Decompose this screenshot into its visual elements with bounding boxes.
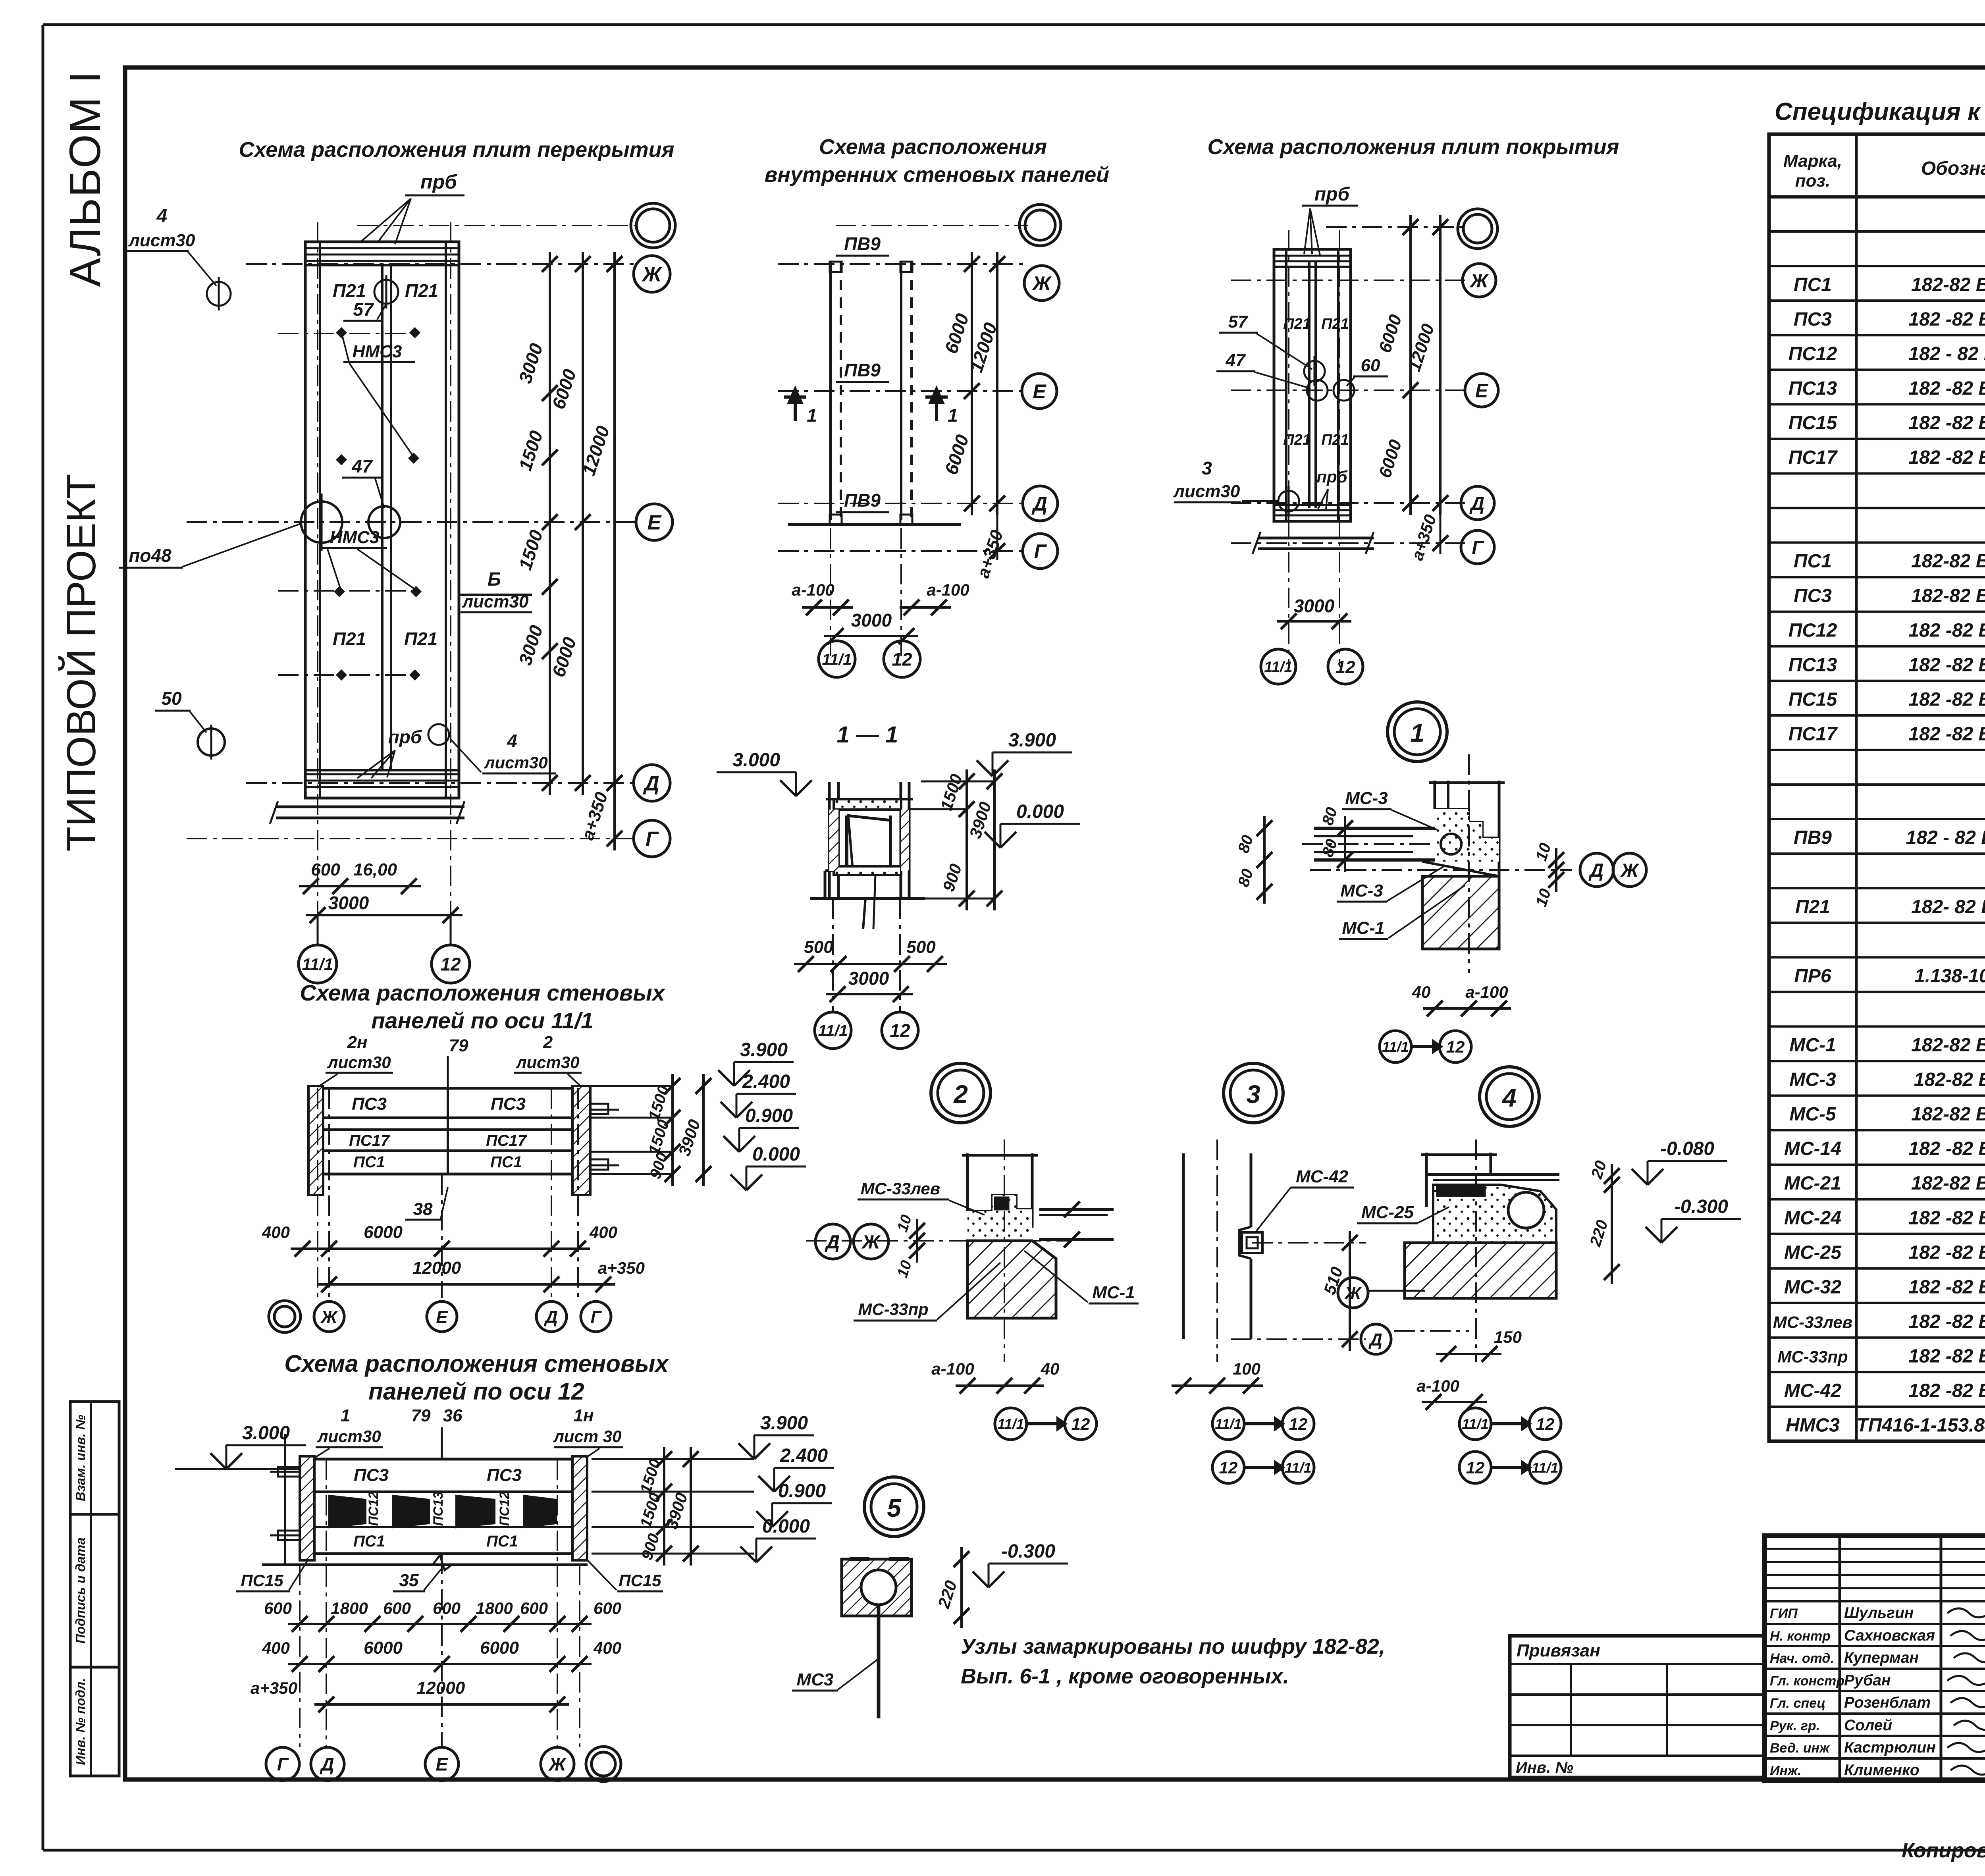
svg-text:Вып. 6-1 , кроме оговоренны: Вып. 6-1 , кроме оговоренных. bbox=[961, 1664, 1289, 1688]
svg-text:Б: Б bbox=[488, 569, 501, 590]
spec table row 22: Перемычки bbox=[1769, 922, 1985, 924]
svg-text:Ж: Ж bbox=[641, 263, 663, 286]
scheme 3 lintel bands bbox=[1275, 255, 1349, 257]
svg-text:МС-33пр: МС-33пр bbox=[858, 1300, 928, 1319]
svg-text:0.000: 0.000 bbox=[1016, 801, 1064, 822]
spec table row 35: МС-42 bbox=[1769, 1371, 1985, 1373]
svg-text:лист30: лист30 bbox=[327, 1053, 391, 1072]
svg-text:Схема расположения: Схема расположения bbox=[819, 135, 1047, 159]
title block outer bbox=[1765, 1536, 1985, 1781]
spec table outer bbox=[1769, 134, 1985, 1441]
svg-text:11/1: 11/1 bbox=[1532, 1460, 1558, 1476]
svg-text:11/1: 11/1 bbox=[822, 651, 852, 668]
svg-text:лист 30: лист 30 bbox=[553, 1427, 622, 1446]
svg-text:1: 1 bbox=[948, 405, 958, 426]
svg-text:182 - 82 Вып. 3-1: 182 - 82 Вып. 3-1 bbox=[1906, 827, 1985, 848]
svg-text:Д: Д bbox=[319, 1754, 334, 1775]
scheme 1 bottom dimensions bbox=[299, 885, 421, 887]
detail 4 vertical axis bbox=[1475, 1139, 1477, 1362]
svg-text:2н: 2н bbox=[347, 1033, 367, 1052]
svg-text:Ж: Ж bbox=[320, 1307, 338, 1327]
svg-text:12: 12 bbox=[1336, 657, 1355, 677]
svg-text:182 -82 Вып. 1-3: 182 -82 Вып. 1-3 bbox=[1908, 413, 1985, 434]
svg-text:11/1: 11/1 bbox=[1215, 1416, 1241, 1432]
spec table row 30: МС-24 bbox=[1769, 1198, 1985, 1201]
svg-text:0.900: 0.900 bbox=[778, 1481, 826, 1502]
detail 1 bottom dims bbox=[1423, 1007, 1511, 1010]
spec table row 15: П6.15.3,5 bbox=[1769, 680, 1985, 682]
title block signatures bbox=[1947, 1606, 1985, 1618]
svg-text:182-82 Вып. 7-1: 182-82 Вып. 7-1 bbox=[1911, 1035, 1985, 1056]
detail 2 wall above bbox=[966, 1153, 969, 1211]
svg-text:Кастрюлин: Кастрюлин bbox=[1844, 1739, 1936, 1756]
svg-text:600: 600 bbox=[594, 1599, 621, 1618]
svg-text:182 -82 Вып. 1-1: 182 -82 Вып. 1-1 bbox=[1908, 689, 1985, 710]
svg-text:6000: 6000 bbox=[480, 1638, 519, 1658]
svg-text:Копировал: Копировал bbox=[1902, 1839, 1985, 1862]
svg-text:182 -82 Вып. 1-3: 182 -82 Вып. 1-3 bbox=[1908, 309, 1985, 330]
svg-text:лист30: лист30 bbox=[515, 1053, 579, 1072]
svg-text:ПС3: ПС3 bbox=[487, 1465, 522, 1485]
spec table row 8: П60.15.3 bbox=[1769, 438, 1985, 440]
scheme 3 bottom dims bbox=[1277, 620, 1351, 623]
svg-text:ГИП: ГИП bbox=[1770, 1606, 1798, 1621]
svg-text:1: 1 bbox=[341, 1406, 350, 1425]
svg-text:ПС12: ПС12 bbox=[366, 1491, 381, 1526]
detail 4 axis connection lines bbox=[1369, 1290, 1425, 1292]
svg-text:Гл. констр: Гл. констр bbox=[1770, 1674, 1844, 1689]
scheme 1 lintel band bottom bbox=[306, 773, 458, 775]
svg-text:79: 79 bbox=[449, 1036, 468, 1055]
section 1-1 level marks bbox=[780, 780, 796, 796]
spec table row 16: П60.15.3,5 bbox=[1769, 714, 1985, 717]
svg-text:11/1: 11/1 bbox=[1382, 1039, 1409, 1055]
svg-text:400: 400 bbox=[262, 1639, 290, 1657]
svg-text:ПС15: ПС15 bbox=[241, 1571, 283, 1590]
detail 2 ref circles bbox=[995, 1408, 1027, 1440]
spec table row 17: Для t=-20°; t=-30°; t=40° bbox=[1769, 749, 1985, 751]
svg-text:182 -82 Вып. 1-1: 182 -82 Вып. 1-1 bbox=[1908, 620, 1985, 641]
svg-text:12: 12 bbox=[440, 954, 461, 975]
svg-text:Н. контр: Н. контр bbox=[1770, 1629, 1831, 1644]
detail 2 vertical axis bbox=[1004, 1139, 1005, 1362]
svg-text:2.400: 2.400 bbox=[742, 1071, 790, 1092]
svg-text:1н: 1н bbox=[573, 1406, 594, 1425]
svg-text:2.400: 2.400 bbox=[780, 1445, 828, 1466]
svg-text:Ж: Ж bbox=[1620, 860, 1640, 881]
spec table header row bbox=[1769, 195, 1985, 199]
svg-text:1800: 1800 bbox=[331, 1599, 368, 1618]
detail 4 bubble bbox=[1480, 1067, 1539, 1126]
svg-text:Инв. №: Инв. № bbox=[1516, 1759, 1573, 1776]
spec table row 33: МС-33 лев bbox=[1769, 1302, 1985, 1304]
detail 5 anchor line bbox=[877, 1605, 881, 1718]
svg-text:3: 3 bbox=[1246, 1080, 1260, 1109]
svg-text:3.900: 3.900 bbox=[740, 1039, 788, 1060]
svg-text:П21: П21 bbox=[405, 280, 438, 301]
svg-text:ПС13: ПС13 bbox=[1788, 378, 1837, 399]
svg-text:182 -82 Вып. 7-1: 182 -82 Вып. 7-1 bbox=[1908, 1346, 1985, 1367]
svg-text:12: 12 bbox=[1072, 1415, 1090, 1433]
svg-text:ПС1: ПС1 bbox=[1794, 274, 1832, 295]
svg-text:ПС12: ПС12 bbox=[1788, 620, 1837, 641]
svg-text:ПС1: ПС1 bbox=[353, 1153, 385, 1171]
svg-text:ПС3: ПС3 bbox=[491, 1094, 526, 1114]
svg-text:600: 600 bbox=[433, 1599, 461, 1618]
svg-text:ТИПОВОЙ ПРОЕКТ: ТИПОВОЙ ПРОЕКТ bbox=[58, 474, 104, 851]
svg-text:182-82 Вып. 1-3: 182-82 Вып. 1-3 bbox=[1911, 274, 1985, 295]
svg-text:182 -82 Вып. 1-3: 182 -82 Вып. 1-3 bbox=[1908, 447, 1985, 468]
svg-text:12: 12 bbox=[890, 1020, 910, 1041]
scheme 1 lintel band top bbox=[306, 247, 458, 249]
detail 2 bottom dims bbox=[956, 1384, 1044, 1387]
svg-text:1.138-10 Вып.1: 1.138-10 Вып.1 bbox=[1914, 966, 1985, 987]
svg-text:11/1: 11/1 bbox=[1264, 659, 1292, 676]
spec table row 26: МС-3 bbox=[1769, 1060, 1985, 1062]
scheme 12 left pier bbox=[300, 1456, 314, 1560]
detail 1 slab from left bbox=[1314, 827, 1435, 830]
detail 3 MS-42 square bbox=[1242, 1232, 1262, 1253]
svg-text:МС-3: МС-3 bbox=[1345, 789, 1388, 808]
svg-text:12000: 12000 bbox=[416, 1678, 465, 1698]
svg-text:НМС3: НМС3 bbox=[330, 528, 380, 547]
svg-text:Д: Д bbox=[1469, 493, 1485, 514]
spec table row 18: Внутренние стеновые панели bbox=[1769, 783, 1985, 786]
svg-text:47: 47 bbox=[351, 456, 373, 476]
svg-text:Спецификация к схемам распо: Спецификация к схемам расположения на ли… bbox=[1775, 98, 1985, 125]
scheme 2 dimension lines bbox=[971, 252, 973, 515]
svg-text:182-82 Вып. 1-1: 182-82 Вып. 1-1 bbox=[1911, 585, 1985, 606]
title block left part lines bbox=[1839, 1536, 1841, 1781]
svg-text:40: 40 bbox=[1041, 1359, 1060, 1378]
scheme 11-1 right pier bbox=[572, 1086, 590, 1195]
svg-text:50: 50 bbox=[161, 688, 182, 709]
svg-text:2: 2 bbox=[543, 1033, 553, 1052]
svg-text:150: 150 bbox=[1494, 1328, 1522, 1346]
svg-text:60: 60 bbox=[1361, 356, 1380, 375]
svg-text:Сахновская: Сахновская bbox=[1844, 1627, 1935, 1644]
svg-text:12: 12 bbox=[892, 649, 912, 670]
svg-text:Д: Д bbox=[643, 772, 659, 795]
svg-text:Инв. № подл.: Инв. № подл. bbox=[73, 1678, 88, 1765]
section 1-1 walls bbox=[828, 782, 831, 898]
spec table row 9: Для t=-40° bbox=[1769, 472, 1985, 474]
scheme 12 footing lines bbox=[262, 1564, 588, 1566]
svg-text:40: 40 bbox=[1412, 983, 1431, 1001]
svg-text:Клименко: Клименко bbox=[1844, 1762, 1919, 1779]
scheme 1 right dimension lines bbox=[549, 252, 551, 795]
svg-text:МС-33пр: МС-33пр bbox=[1777, 1348, 1848, 1366]
svg-text:182-82 Вып. 1-1: 182-82 Вып. 1-1 bbox=[1911, 551, 1985, 572]
svg-text:182- 82 Вып.4-1: 182- 82 Вып.4-1 bbox=[1911, 897, 1985, 918]
svg-text:Г: Г bbox=[590, 1307, 602, 1327]
detail 3 dim 510 bbox=[1252, 1242, 1366, 1244]
svg-text:лист30: лист30 bbox=[128, 231, 195, 250]
svg-text:внутренних стеновых панелей: внутренних стеновых панелей bbox=[765, 163, 1110, 187]
svg-text:Рук. гр.: Рук. гр. bbox=[1770, 1718, 1820, 1733]
detail 5 dims bbox=[960, 1547, 963, 1628]
svg-text:Узлы замаркированы по шифру: Узлы замаркированы по шифру 182-82, bbox=[961, 1635, 1385, 1658]
detail 1 stepped MS-3 element bbox=[1435, 809, 1499, 838]
detail 1 bubble bbox=[1388, 702, 1447, 762]
scheme 2 section mark 1-1 right bbox=[935, 391, 938, 421]
scheme 12 dims below bbox=[288, 1623, 592, 1625]
spec table row 25: МС-1 bbox=[1769, 1025, 1985, 1028]
svg-text:-0.300: -0.300 bbox=[1674, 1196, 1728, 1217]
section 1-1 hatch left wall bbox=[829, 810, 838, 871]
svg-text:182-82 Вып. 7-1: 182-82 Вып. 7-1 bbox=[1911, 1173, 1985, 1194]
spec table row 11: П60.9.3,5 bbox=[1769, 542, 1985, 544]
svg-text:Е: Е bbox=[1475, 380, 1489, 401]
svg-text:а-100: а-100 bbox=[792, 580, 834, 599]
svg-text:П21: П21 bbox=[1321, 432, 1349, 448]
scheme 12 right pier bbox=[572, 1456, 587, 1560]
svg-text:3.900: 3.900 bbox=[1008, 730, 1056, 751]
svg-text:МС-1: МС-1 bbox=[1789, 1035, 1836, 1056]
svg-text:600: 600 bbox=[520, 1599, 548, 1618]
svg-text:Обозначение: Обозначение bbox=[1921, 158, 1985, 179]
svg-text:ПС1: ПС1 bbox=[486, 1533, 518, 1550]
section 1-1 right dims bbox=[966, 769, 968, 821]
scheme 3 axis verticals bbox=[1288, 230, 1289, 667]
svg-text:11/1: 11/1 bbox=[818, 1022, 848, 1039]
scheme 1 plan outline bbox=[305, 242, 459, 798]
svg-text:1 — 1: 1 — 1 bbox=[837, 722, 898, 748]
svg-text:79: 79 bbox=[411, 1406, 431, 1425]
svg-text:а+350: а+350 bbox=[251, 1679, 297, 1697]
svg-text:0.000: 0.000 bbox=[762, 1516, 810, 1537]
scheme 12 axis verticals bbox=[299, 1565, 301, 1747]
svg-text:182 -82 Вып. 7-1: 182 -82 Вып. 7-1 bbox=[1908, 1138, 1985, 1159]
scheme 2 bottom dims bbox=[830, 528, 831, 659]
svg-text:400: 400 bbox=[593, 1639, 621, 1657]
svg-text:12: 12 bbox=[1536, 1415, 1555, 1433]
svg-text:МС-5: МС-5 bbox=[1789, 1104, 1837, 1125]
scheme 11-1 axis circles bbox=[269, 1301, 301, 1332]
detail 1 hatched base bbox=[1422, 876, 1499, 949]
svg-text:600: 600 bbox=[383, 1599, 411, 1618]
svg-text:600: 600 bbox=[264, 1599, 292, 1618]
svg-text:по48: по48 bbox=[129, 545, 172, 566]
section 1-1 footing bbox=[824, 871, 827, 898]
spec table row 12: 1П60.15.3,5 bbox=[1769, 576, 1985, 578]
scheme 3 axis horizontals bbox=[1326, 226, 1465, 228]
scheme 1 bottom axis circles bbox=[299, 945, 337, 983]
svg-text:ПС3: ПС3 bbox=[352, 1094, 387, 1114]
scheme 11-1 right dim column bbox=[671, 1074, 674, 1186]
svg-text:П21: П21 bbox=[333, 280, 366, 301]
svg-text:500: 500 bbox=[906, 937, 936, 957]
svg-text:Марка,: Марка, bbox=[1783, 151, 1842, 171]
svg-text:Схема расположения стеновых: Схема расположения стеновых bbox=[284, 1350, 669, 1377]
svg-text:2: 2 bbox=[953, 1080, 968, 1109]
scheme 2 section mark 1-1 left bbox=[794, 391, 797, 421]
svg-text:МС-24: МС-24 bbox=[1784, 1207, 1841, 1228]
detail 5 block bbox=[842, 1559, 912, 1616]
svg-text:ПС3: ПС3 bbox=[354, 1465, 389, 1485]
scheme 11-1 axis verticals bbox=[317, 1088, 318, 1298]
svg-text:П21: П21 bbox=[1283, 316, 1311, 332]
svg-text:100: 100 bbox=[1233, 1359, 1260, 1378]
scheme 12 panels bbox=[314, 1458, 572, 1461]
spec table row 10: Стеновые панели bbox=[1769, 507, 1985, 509]
detail 1 vertical axis bbox=[1468, 754, 1470, 973]
detail 3 bottom dims bbox=[1172, 1384, 1263, 1387]
svg-text:Солей: Солей bbox=[1844, 1717, 1892, 1734]
svg-text:400: 400 bbox=[589, 1223, 617, 1242]
scheme 1 axis circles right bbox=[631, 203, 675, 248]
svg-text:500: 500 bbox=[804, 937, 833, 957]
scheme 1 lifting marks bbox=[207, 282, 231, 306]
svg-text:поз.: поз. bbox=[1795, 171, 1830, 191]
detail 4 slab bbox=[1426, 1173, 1559, 1176]
svg-text:а-100: а-100 bbox=[927, 580, 969, 599]
scheme 12 level marks right bbox=[592, 1458, 754, 1460]
left margin stamp boxes bbox=[70, 1402, 119, 1514]
svg-text:12: 12 bbox=[1446, 1037, 1465, 1056]
svg-text:1: 1 bbox=[807, 405, 817, 426]
svg-text:ТП416-1-153.84 -КЖИ-НМС3: ТП416-1-153.84 -КЖИ-НМС3 bbox=[1856, 1415, 1985, 1436]
svg-text:Д: Д bbox=[1588, 860, 1604, 881]
svg-text:лист30: лист30 bbox=[484, 753, 547, 772]
scheme 11-1 level lines right bbox=[592, 1085, 673, 1087]
scheme 3 axis circles right bbox=[1458, 209, 1497, 249]
scheme 2 bottom axis circles bbox=[819, 641, 855, 677]
svg-text:МС-3: МС-3 bbox=[1340, 881, 1383, 900]
svg-text:МС-33лев: МС-33лев bbox=[1773, 1313, 1852, 1331]
svg-text:ПС15: ПС15 bbox=[619, 1571, 661, 1590]
svg-text:Схема расположения стеновых: Схема расположения стеновых bbox=[300, 980, 665, 1006]
scheme 12 right dims bbox=[663, 1447, 665, 1566]
detail 3 wall bbox=[1182, 1153, 1185, 1339]
svg-text:ПВ9: ПВ9 bbox=[844, 360, 881, 380]
svg-text:Рубан: Рубан bbox=[1844, 1672, 1891, 1689]
svg-text:Привязан: Привязан bbox=[1517, 1641, 1600, 1660]
svg-text:Е: Е bbox=[648, 511, 662, 534]
detail 2 hatched base bbox=[967, 1241, 1056, 1318]
scheme 12 corbels left bbox=[278, 1467, 300, 1477]
svg-text:11/1: 11/1 bbox=[1462, 1416, 1488, 1432]
svg-text:Г: Г bbox=[646, 828, 659, 851]
scheme 3 footing bbox=[1258, 537, 1374, 540]
svg-text:Е: Е bbox=[1033, 380, 1046, 403]
svg-text:12: 12 bbox=[1219, 1458, 1238, 1477]
svg-text:6000: 6000 bbox=[364, 1222, 403, 1242]
svg-text:Гл. спец: Гл. спец bbox=[1770, 1696, 1825, 1711]
svg-text:12: 12 bbox=[1466, 1458, 1485, 1477]
svg-text:ПС1: ПС1 bbox=[1794, 551, 1832, 572]
svg-text:МС-1: МС-1 bbox=[1092, 1283, 1135, 1302]
svg-text:НМС3: НМС3 bbox=[353, 342, 402, 361]
detail 4 bottom dims bbox=[1422, 1401, 1487, 1403]
detail 2 stepped element bbox=[967, 1195, 1032, 1211]
svg-text:ПС12: ПС12 bbox=[497, 1491, 512, 1526]
svg-text:3.000: 3.000 bbox=[242, 1423, 290, 1444]
svg-text:Г: Г bbox=[277, 1754, 289, 1775]
svg-text:П21: П21 bbox=[404, 629, 437, 649]
svg-text:Схема расположения плит покрыт: Схема расположения плит покрытия bbox=[1208, 135, 1619, 159]
svg-text:ПВ9: ПВ9 bbox=[844, 233, 881, 254]
detail 4 wall above bbox=[1425, 1153, 1428, 1207]
svg-text:МС-42: МС-42 bbox=[1296, 1167, 1349, 1186]
svg-text:прб: прб bbox=[388, 727, 422, 747]
svg-text:182 -82 Вып. 1-1: 182 -82 Вып. 1-1 bbox=[1908, 654, 1985, 675]
scheme 2 footing line bbox=[788, 523, 961, 526]
scheme 11-1 left pier bbox=[308, 1086, 323, 1195]
svg-text:11/1: 11/1 bbox=[997, 1416, 1024, 1432]
svg-text:35: 35 bbox=[399, 1571, 419, 1590]
svg-text:Подпись и дата: Подпись и дата bbox=[73, 1537, 88, 1644]
scheme 2 wall end squares bbox=[830, 262, 842, 272]
svg-text:ПС17: ПС17 bbox=[1788, 724, 1838, 745]
svg-text:182 -82 Вып. 1-1: 182 -82 Вып. 1-1 bbox=[1908, 724, 1985, 745]
spec table row 6: 1П12.15.3 bbox=[1769, 368, 1985, 371]
scheme 1 panel split lines bbox=[381, 265, 384, 770]
svg-text:Д: Д bbox=[1031, 493, 1047, 515]
svg-text:лист30: лист30 bbox=[317, 1427, 381, 1446]
svg-text:3000: 3000 bbox=[851, 610, 892, 630]
svg-text:Ж: Ж bbox=[1344, 1284, 1362, 1303]
spec table row 29: МС-21 bbox=[1769, 1164, 1985, 1166]
svg-text:3000: 3000 bbox=[1294, 596, 1335, 616]
svg-text:ПС13: ПС13 bbox=[431, 1491, 446, 1526]
detail 2 axis D Zh bbox=[806, 1240, 1072, 1242]
spec table row 19: ПВП29.27.20 bbox=[1769, 818, 1985, 820]
svg-text:12000: 12000 bbox=[412, 1258, 461, 1278]
spec table row 7: П6.15.3 bbox=[1769, 403, 1985, 405]
spec table row 4: 1П60.15.3 bbox=[1769, 299, 1985, 302]
svg-text:600: 600 bbox=[311, 860, 340, 879]
svg-text:ПР6: ПР6 bbox=[1794, 966, 1831, 987]
svg-text:МС-3: МС-3 bbox=[1789, 1069, 1836, 1090]
svg-text:МС-42: МС-42 bbox=[1784, 1380, 1841, 1402]
svg-text:а-100: а-100 bbox=[931, 1359, 974, 1378]
detail 3 vertical axis bbox=[1216, 1139, 1218, 1362]
svg-text:ПС17: ПС17 bbox=[1788, 447, 1838, 468]
detail 4 hatched footing bbox=[1405, 1243, 1556, 1298]
svg-text:ПС17: ПС17 bbox=[486, 1132, 527, 1149]
spec table row 21: 1ПК 4.5-60.15 bbox=[1769, 887, 1985, 889]
svg-text:Ж: Ж bbox=[1031, 272, 1052, 295]
spec table row 2: Стеновые панели bbox=[1769, 230, 1985, 233]
svg-text:МС-14: МС-14 bbox=[1784, 1138, 1841, 1159]
section 1-1 bottom slab bbox=[834, 866, 901, 875]
svg-text:-0.080: -0.080 bbox=[1660, 1138, 1714, 1159]
svg-text:1800: 1800 bbox=[476, 1599, 513, 1618]
svg-text:57: 57 bbox=[1228, 312, 1249, 332]
svg-text:панелей по оси 12: панелей по оси 12 bbox=[368, 1378, 584, 1405]
svg-text:а-100: а-100 bbox=[1416, 1377, 1459, 1395]
svg-text:182 -82 Вып. 7-1: 182 -82 Вып. 7-1 bbox=[1908, 1380, 1985, 1402]
detail 3 axis circles Zh D bbox=[1338, 1278, 1368, 1308]
svg-text:ПВ9: ПВ9 bbox=[1794, 827, 1832, 848]
svg-text:Вед. инж: Вед. инж bbox=[1770, 1741, 1830, 1756]
scheme 1 footing line bbox=[276, 806, 464, 808]
svg-text:Шульгин: Шульгин bbox=[1844, 1604, 1914, 1621]
spec table row 20: Панели перекрытий bbox=[1769, 852, 1985, 855]
spec table row 13: 4П12.15.3,5 bbox=[1769, 611, 1985, 613]
scheme 2 axis lines bbox=[836, 225, 1028, 226]
section 1-1 axis circles bbox=[832, 898, 834, 1012]
svg-text:6000: 6000 bbox=[364, 1638, 403, 1658]
svg-text:П21: П21 bbox=[1321, 316, 1349, 332]
svg-text:11/1: 11/1 bbox=[302, 955, 333, 974]
spec table row 14: 1П12.15.3,5 bbox=[1769, 645, 1985, 648]
detail 1 wall bbox=[1434, 781, 1436, 809]
detail 1 axis line and D Zh circles bbox=[1310, 869, 1572, 871]
scheme 11-1 corbels right bbox=[590, 1104, 608, 1114]
svg-text:36: 36 bbox=[443, 1406, 463, 1425]
